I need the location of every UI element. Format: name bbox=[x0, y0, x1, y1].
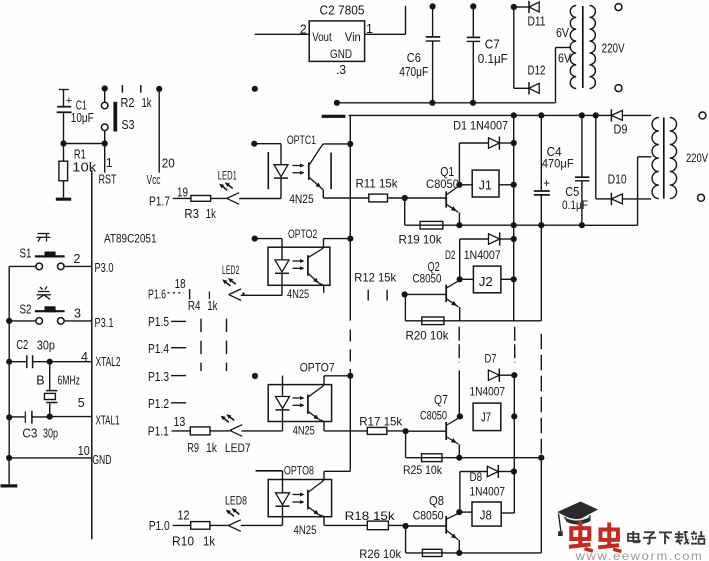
svg-text:P1.1: P1.1 bbox=[148, 424, 169, 438]
svg-text:R10: R10 bbox=[172, 535, 194, 549]
pin Vcc label bbox=[147, 173, 161, 187]
wire left rail (S1-S2) bbox=[6, 266, 12, 324]
wire RST junction bbox=[60, 140, 107, 146]
svg-text:LED2: LED2 bbox=[222, 263, 240, 277]
ground rail (5V side, y=103) bbox=[334, 100, 556, 106]
transformer T1 primary 220V bbox=[590, 6, 626, 89]
svg-text:6V: 6V bbox=[556, 26, 570, 40]
svg-text:1: 1 bbox=[106, 156, 113, 170]
svg-text:J1: J1 bbox=[479, 179, 492, 193]
svg-text:R3: R3 bbox=[184, 207, 199, 221]
wire P1.1 pin 13 bbox=[172, 415, 191, 431]
resistor R9 1k bbox=[187, 427, 230, 455]
terminal T2 output top bbox=[699, 112, 706, 119]
svg-text:C2: C2 bbox=[16, 338, 28, 352]
svg-text:1k: 1k bbox=[206, 207, 217, 221]
regulator U2 7805 bbox=[300, 4, 373, 77]
svg-text:P1.6: P1.6 bbox=[148, 287, 166, 301]
node +5V column top dot bbox=[252, 86, 258, 92]
wire right return column (x=541.3) bbox=[540, 458, 542, 553]
svg-text:470μF: 470μF bbox=[399, 65, 428, 79]
svg-text:4N25: 4N25 bbox=[293, 423, 315, 437]
wire left rail (C3-GND) bbox=[6, 417, 12, 461]
svg-text:4N25: 4N25 bbox=[289, 192, 314, 206]
wire left rail (S2-C2) bbox=[6, 321, 12, 365]
svg-text:C7: C7 bbox=[485, 38, 500, 52]
svg-text:J8: J8 bbox=[480, 508, 492, 522]
svg-text:P1.3: P1.3 bbox=[148, 370, 169, 384]
ground rail row8 (y=552.9) bbox=[406, 550, 542, 556]
node Q7 base junction bbox=[403, 428, 447, 458]
svg-text:Q8: Q8 bbox=[429, 494, 444, 508]
svg-text:C2 7805: C2 7805 bbox=[320, 4, 365, 18]
crystal B 6MHz bbox=[36, 362, 80, 417]
svg-text:D10: D10 bbox=[608, 172, 627, 186]
ground (left rail) bbox=[1, 458, 18, 488]
optocoupler OPTO8 4N25 bbox=[268, 463, 350, 537]
wire D11/D12 cathode column bbox=[513, 7, 515, 88]
pin P3.1 label bbox=[95, 316, 114, 330]
svg-text:AT89C2051: AT89C2051 bbox=[104, 231, 157, 245]
node D8 cathode bbox=[511, 468, 517, 474]
svg-text:18: 18 bbox=[175, 277, 186, 291]
svg-text:XTAL2: XTAL2 bbox=[96, 355, 121, 369]
wire 7805 Vin (pin1) lead bbox=[365, 6, 406, 35]
svg-text:P1.0: P1.0 bbox=[149, 519, 170, 533]
LED LED2 indicator bbox=[222, 263, 282, 301]
terminal T2 output bottom bbox=[698, 194, 705, 201]
svg-text:D7: D7 bbox=[485, 351, 497, 365]
svg-text:0.1μF: 0.1μF bbox=[562, 198, 588, 212]
svg-text:C8050: C8050 bbox=[420, 408, 447, 422]
svg-text:4N25: 4N25 bbox=[287, 287, 309, 301]
diode D12 1N4007 bbox=[514, 63, 546, 94]
resistor R1 bbox=[59, 144, 97, 198]
svg-text:R25 10k: R25 10k bbox=[403, 463, 443, 477]
dashed continuation (x=459.2) bbox=[458, 327, 460, 363]
svg-text:4: 4 bbox=[81, 350, 88, 364]
diode D11 1N4007 bbox=[511, 1, 546, 29]
pin P1.0 label bbox=[149, 519, 170, 533]
pin RST label bbox=[99, 172, 117, 186]
svg-text:P1.2: P1.2 bbox=[148, 397, 169, 411]
resistor R18 15k bbox=[324, 509, 406, 529]
node J7 coil + (column) bbox=[511, 413, 517, 419]
relay J2 bbox=[460, 266, 514, 293]
relay J8 bbox=[459, 502, 514, 526]
wire T1 centre tap to ground rail bbox=[556, 48, 571, 103]
transformer T1 core bbox=[582, 6, 584, 88]
capacitor C5 0.1uF bbox=[562, 115, 589, 225]
node Q7 collector bbox=[457, 413, 463, 419]
svg-text:R19 10k: R19 10k bbox=[399, 232, 443, 246]
svg-text:6MHz: 6MHz bbox=[58, 374, 81, 388]
wire P1.7 pin 19 bbox=[173, 185, 191, 199]
resistor R17 15k bbox=[324, 414, 406, 434]
svg-text:D11: D11 bbox=[528, 14, 546, 28]
node opto2 anode bbox=[252, 236, 258, 242]
svg-text:S2: S2 bbox=[20, 302, 32, 316]
svg-text:R1: R1 bbox=[74, 147, 86, 161]
svg-text:R9: R9 bbox=[187, 441, 199, 455]
pin P1.3 label + stub bbox=[148, 370, 186, 384]
pin P1.1 label bbox=[148, 424, 169, 438]
watermark www.eeworm.com bbox=[574, 549, 703, 561]
svg-text:J7: J7 bbox=[481, 411, 491, 425]
svg-text:S3: S3 bbox=[122, 118, 135, 132]
svg-text:D8: D8 bbox=[470, 470, 483, 484]
optocoupler OPTC1 4N25 bbox=[268, 133, 369, 206]
capacitor C7 0.1uF bbox=[467, 3, 508, 103]
svg-text:R17 15k: R17 15k bbox=[359, 414, 403, 428]
dashed continuation (left, x=201) bbox=[200, 319, 202, 371]
svg-text:C5: C5 bbox=[565, 185, 579, 199]
wire P1.6 pin 18 (dotted) bbox=[168, 277, 186, 293]
dashed continuation (left, x=226.5) bbox=[226, 319, 228, 371]
svg-text:1N4007: 1N4007 bbox=[470, 384, 506, 398]
pushbutton S3 bbox=[101, 92, 134, 144]
resistor R2 (lead ticks) bbox=[121, 85, 153, 110]
svg-text:P3.1: P3.1 bbox=[95, 316, 114, 330]
svg-text:1k: 1k bbox=[207, 299, 218, 313]
node Q8 collector bbox=[456, 509, 462, 515]
watermark 电子下载站 (dark) bbox=[628, 531, 705, 544]
resistor R26 10k bbox=[359, 547, 442, 561]
svg-text:1k: 1k bbox=[206, 441, 218, 455]
svg-text:12: 12 bbox=[178, 508, 190, 522]
svg-text:D12: D12 bbox=[528, 63, 546, 77]
pin P3.0 label bbox=[95, 261, 114, 275]
ground (R1) bbox=[56, 198, 71, 201]
wire opto2 anode feed bbox=[255, 239, 282, 248]
svg-text:R20 10k: R20 10k bbox=[406, 328, 450, 342]
svg-text:1N4007: 1N4007 bbox=[464, 248, 501, 262]
+12V rail thick mark bbox=[322, 115, 346, 118]
pin P1.7 label bbox=[149, 194, 170, 208]
node opto7 collector on rail bbox=[347, 373, 353, 379]
resistor R12 15k (faint ticks) bbox=[354, 271, 397, 301]
svg-text:RST: RST bbox=[99, 172, 117, 186]
transformer T2 secondary 220V bbox=[670, 118, 708, 199]
terminal T1 mains bottom bbox=[615, 85, 622, 92]
svg-text:C8050: C8050 bbox=[413, 508, 444, 522]
wire opto collector rail (solid top) bbox=[349, 115, 351, 320]
svg-text:P3.0: P3.0 bbox=[95, 261, 114, 275]
ground rail row1 (y=225.2) bbox=[405, 222, 585, 228]
resistor R10 1k bbox=[172, 522, 228, 549]
watermark graduation cap bbox=[557, 502, 598, 537]
wire +12 branch to D10 bbox=[596, 115, 612, 198]
wire left rail (C2-C3) bbox=[6, 362, 12, 421]
node J2 coil + bbox=[511, 276, 517, 282]
char 开 bbox=[37, 234, 51, 242]
svg-text:GND: GND bbox=[92, 453, 111, 467]
svg-text:220V: 220V bbox=[686, 151, 708, 165]
svg-text:R26 10k: R26 10k bbox=[359, 547, 402, 561]
svg-text:3: 3 bbox=[74, 306, 81, 320]
wire opto8 anode feed bbox=[256, 471, 283, 480]
diode D10 1N4007 bbox=[608, 172, 652, 205]
transformer T2 primary (centre-tapped) bbox=[652, 118, 659, 199]
char 关 bbox=[37, 287, 52, 300]
resistor R3 1k bbox=[184, 196, 226, 222]
relay J1 bbox=[459, 170, 513, 197]
svg-text:Vout: Vout bbox=[312, 32, 332, 44]
resistor R20 10k bbox=[406, 317, 450, 342]
svg-text:0.1μF: 0.1μF bbox=[478, 52, 508, 66]
wire 7805 Vout (pin2) to +5V column bbox=[255, 33, 310, 35]
svg-text:OPTC1: OPTC1 bbox=[287, 133, 316, 147]
svg-text:C3: C3 bbox=[22, 426, 37, 440]
svg-text:2: 2 bbox=[74, 252, 81, 266]
wire D7 column (solid above Q7) bbox=[458, 371, 460, 417]
svg-text:OPTO2: OPTO2 bbox=[288, 227, 317, 241]
node Vcc rail top bbox=[156, 86, 162, 92]
svg-text:C6: C6 bbox=[407, 51, 421, 65]
wire opto7 anode stub bbox=[282, 376, 284, 385]
svg-text:4N25: 4N25 bbox=[294, 523, 317, 537]
switch S1 (开) bbox=[9, 247, 92, 270]
transistor Q1 C8050 bbox=[426, 165, 459, 225]
wire P1.0 pin 12 bbox=[173, 508, 191, 525]
svg-text:www.eeworm.com: www.eeworm.com bbox=[574, 549, 703, 561]
relay J7 bbox=[473, 403, 501, 431]
svg-text:R12 15k: R12 15k bbox=[354, 271, 397, 285]
wire GND pin 10 bbox=[9, 444, 92, 458]
node Vcc-top-left bbox=[102, 85, 108, 91]
transistor Q8 C8050 bbox=[413, 494, 460, 553]
svg-text:GND: GND bbox=[330, 47, 352, 61]
svg-text:30p: 30p bbox=[43, 426, 58, 440]
diode D8 1N4007 bbox=[460, 465, 514, 512]
svg-text:S1: S1 bbox=[20, 247, 32, 261]
resistor R25 10k bbox=[403, 454, 443, 477]
svg-text:XTAL1: XTAL1 bbox=[96, 414, 120, 428]
node Q2 base junction bbox=[402, 291, 447, 321]
wire Vcc pin 20 lead bbox=[159, 89, 175, 173]
capacitor C6 470uF bbox=[399, 3, 440, 103]
node opto2 collector on rail bbox=[347, 236, 353, 242]
diode D9 1N4007 bbox=[611, 109, 651, 136]
node Q8 base junction bbox=[403, 523, 447, 553]
svg-text:Q7: Q7 bbox=[434, 393, 448, 407]
svg-text:C8050: C8050 bbox=[413, 271, 442, 285]
switch S2 (关) bbox=[9, 302, 92, 324]
pin P1.4 label + stub bbox=[148, 342, 186, 356]
transistor Q7 C8050 bbox=[420, 393, 460, 458]
svg-text:220V: 220V bbox=[602, 41, 626, 55]
svg-text:Vin: Vin bbox=[345, 32, 361, 44]
transformer T2 core bbox=[663, 118, 665, 199]
diode D2 1N4007 bbox=[445, 232, 514, 279]
svg-text:B: B bbox=[36, 374, 44, 388]
svg-text:10k: 10k bbox=[72, 161, 97, 175]
capacitor C4 470uF bbox=[534, 115, 574, 225]
pin P1.2 label + stub bbox=[148, 397, 186, 411]
svg-text:D9: D9 bbox=[614, 123, 628, 137]
pin XTAL1 label bbox=[96, 414, 120, 428]
wire XTAL1 pin 5 bbox=[50, 396, 92, 417]
svg-text:10μF: 10μF bbox=[71, 111, 94, 125]
transformer T1 secondary 6V+6V bbox=[556, 6, 576, 89]
dashed continuation (x=514.7) bbox=[514, 327, 516, 363]
svg-text:+: + bbox=[66, 95, 72, 107]
LED LED7 indicator bbox=[221, 414, 283, 455]
ground rail row7 (y=457.7) bbox=[406, 455, 545, 461]
svg-text:+: + bbox=[543, 178, 550, 190]
wire C4 column to row2 rail bbox=[540, 225, 542, 321]
svg-text:R4: R4 bbox=[188, 299, 201, 313]
svg-text:R11 15k: R11 15k bbox=[356, 176, 399, 190]
svg-text:30p: 30p bbox=[37, 339, 55, 353]
optocoupler OPTO7 4N25 bbox=[268, 361, 350, 438]
wire RST pin 1 lead bbox=[105, 144, 113, 173]
svg-text:19: 19 bbox=[177, 185, 188, 199]
node J1 coil + (on 12V column) bbox=[511, 182, 517, 188]
node Q1 collector bbox=[456, 182, 462, 188]
svg-text:P1.7: P1.7 bbox=[149, 194, 170, 208]
svg-text:Vcc: Vcc bbox=[147, 173, 161, 187]
svg-text:R2: R2 bbox=[121, 96, 135, 110]
svg-text:470μF: 470μF bbox=[542, 156, 574, 170]
svg-text:13: 13 bbox=[174, 415, 186, 429]
wire opto collector rail (dashed break) bbox=[349, 330, 351, 365]
node Q1 base junction bbox=[402, 195, 447, 225]
node opto1 collector on rail bbox=[347, 141, 353, 147]
wire 12V column (D7-J8) bbox=[513, 375, 515, 513]
LED LED1 indicator bbox=[218, 168, 281, 204]
node LED2 wire speck bbox=[242, 292, 244, 294]
MCU U1 AT89C2051 (left edge) bbox=[92, 170, 157, 539]
wire 12V column upper (x=513.7) bbox=[513, 115, 515, 320]
svg-text:1N4007: 1N4007 bbox=[470, 485, 506, 499]
svg-text:OPTO7: OPTO7 bbox=[300, 361, 335, 375]
svg-text:D1 1N4007: D1 1N4007 bbox=[453, 118, 508, 132]
resistor R11 15k bbox=[356, 176, 405, 202]
wire T2 centre tap to ground rail bbox=[582, 157, 652, 226]
resistor R19 10k bbox=[399, 221, 443, 246]
pin XTAL2 label bbox=[96, 355, 121, 369]
svg-text:OPTO8: OPTO8 bbox=[284, 463, 314, 477]
wire opto collector rail (solid bottom) bbox=[349, 369, 351, 471]
pin P1.5 label + stub bbox=[148, 315, 186, 329]
svg-text:D2: D2 bbox=[445, 248, 456, 262]
diode D1 1N4007 bbox=[453, 118, 514, 184]
svg-text:1k: 1k bbox=[203, 535, 216, 549]
pin P1.6 label bbox=[148, 287, 166, 301]
ground rail row2 (y=320.8) bbox=[405, 320, 541, 322]
svg-text:20: 20 bbox=[162, 156, 175, 170]
svg-text:LED7: LED7 bbox=[225, 441, 251, 455]
optocoupler OPTO2 4N25 bbox=[268, 227, 350, 301]
svg-text:6V: 6V bbox=[558, 52, 572, 66]
svg-text:P1.5: P1.5 bbox=[148, 315, 169, 329]
svg-text:10: 10 bbox=[78, 444, 90, 458]
wire opto1 anode feed bbox=[254, 144, 281, 165]
node D1 cathode bbox=[511, 140, 517, 146]
capacitor C1 bbox=[57, 89, 94, 143]
dashed continuation (x=541.3) bbox=[540, 334, 542, 454]
svg-text:P1.4: P1.4 bbox=[148, 342, 169, 356]
svg-text:LED8: LED8 bbox=[225, 493, 247, 507]
+12V rail (y=115.4) bbox=[349, 112, 612, 118]
node D2 cathode bbox=[511, 236, 517, 242]
svg-text:5: 5 bbox=[78, 396, 85, 410]
capacitor C3 bbox=[9, 411, 58, 440]
capacitor C2 bbox=[9, 338, 55, 368]
resistor R4 1k (faint ticks) bbox=[188, 289, 218, 313]
terminal T1 mains top bbox=[615, 4, 622, 11]
diode D7 1N4007 bbox=[470, 351, 515, 398]
svg-text:LED1: LED1 bbox=[218, 168, 237, 182]
node opto1 anode bbox=[251, 141, 257, 147]
pin GND label bbox=[92, 453, 111, 467]
svg-text:J2: J2 bbox=[479, 275, 493, 289]
svg-text:.3: .3 bbox=[336, 63, 346, 77]
watermark 虫虫 (red) bbox=[569, 521, 621, 552]
node Q2 collector bbox=[457, 276, 463, 282]
wire XTAL2 pin 4 bbox=[50, 350, 92, 364]
transistor Q2 C8050 bbox=[413, 260, 460, 321]
svg-text:1k: 1k bbox=[142, 96, 153, 110]
node opto7 anode (isolated) bbox=[252, 373, 258, 379]
LED LED8 indicator bbox=[225, 493, 283, 531]
node D7 cathode bbox=[511, 372, 517, 378]
